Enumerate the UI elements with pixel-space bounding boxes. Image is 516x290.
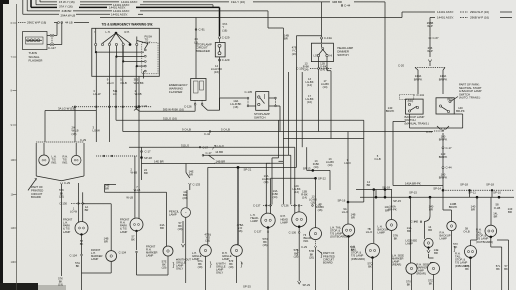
svg-text:BR: BR xyxy=(160,226,164,230)
svg-text:511LG (16): 511LG (16) xyxy=(163,116,177,120)
svg-text:(14): (14) xyxy=(320,68,325,72)
svg-text:O-LB: O-LB xyxy=(494,206,501,210)
svg-text:}: } xyxy=(210,262,212,268)
svg-text:}: } xyxy=(321,253,323,259)
svg-text:IND.: IND. xyxy=(304,239,310,243)
svg-text:385 W-R BK (16): 385 W-R BK (16) xyxy=(163,107,184,111)
svg-text:LAMP: LAMP xyxy=(406,242,414,246)
svg-text:BR: BR xyxy=(434,251,438,255)
svg-text:C-44: C-44 xyxy=(204,132,211,136)
svg-text:BR: BR xyxy=(85,208,89,212)
svg-text:15 W-Y (16): 15 W-Y (16) xyxy=(59,0,75,4)
svg-text:BK: BK xyxy=(504,267,508,271)
svg-text:}: } xyxy=(454,247,456,253)
svg-text:(REAR): (REAR) xyxy=(417,272,426,276)
svg-text:BR: BR xyxy=(508,210,512,214)
svg-text:LO: LO xyxy=(314,54,317,58)
svg-text:BR: BR xyxy=(428,228,432,232)
svg-text:BREAKER: BREAKER xyxy=(196,49,210,53)
svg-text:C-130: C-130 xyxy=(59,202,67,206)
svg-text:(14): (14) xyxy=(323,85,328,89)
svg-text:C-29: C-29 xyxy=(315,203,321,207)
svg-text:(16): (16) xyxy=(318,208,323,212)
svg-text:LAMP: LAMP xyxy=(378,231,386,235)
svg-text:W-LB: W-LB xyxy=(135,92,142,96)
svg-text:C-91: C-91 xyxy=(142,104,149,108)
svg-text:LG-W: LG-W xyxy=(70,209,77,213)
svg-text:W-LB: W-LB xyxy=(134,188,141,192)
svg-text:BR-PK: BR-PK xyxy=(414,77,423,81)
svg-text:BOARD: BOARD xyxy=(323,261,333,265)
svg-text:C-137: C-137 xyxy=(254,230,262,234)
svg-text:(14): (14) xyxy=(264,180,269,184)
svg-text:LG-W: LG-W xyxy=(93,92,101,96)
svg-text:(19): (19) xyxy=(72,132,77,136)
svg-text:ONLY: ONLY xyxy=(176,267,183,271)
svg-text:5 O-LB: 5 O-LB xyxy=(221,128,230,132)
svg-text:BR-PK: BR-PK xyxy=(439,77,448,81)
svg-text:C-129: C-129 xyxy=(222,36,230,40)
svg-text:BK: BK xyxy=(465,267,469,271)
svg-text:SWITCH: SWITCH xyxy=(254,115,265,119)
svg-text:BR: BR xyxy=(284,37,288,41)
svg-text:C-17: C-17 xyxy=(206,151,213,155)
svg-text:BR-PK: BR-PK xyxy=(439,138,448,142)
svg-text:BK: BK xyxy=(394,237,398,241)
svg-text:C-13A: C-13A xyxy=(324,36,332,40)
svg-text:(16): (16) xyxy=(222,28,227,32)
svg-text:10: 10 xyxy=(11,158,15,162)
svg-text:LG: LG xyxy=(113,92,117,96)
svg-text:C-141: C-141 xyxy=(417,93,425,97)
svg-text:}: } xyxy=(297,250,299,256)
svg-text:BK: BK xyxy=(496,267,500,271)
svg-text:BR: BR xyxy=(494,215,498,219)
svg-text:BR-PK: BR-PK xyxy=(388,208,397,212)
svg-text:SP-14: SP-14 xyxy=(433,186,441,190)
svg-text:(19): (19) xyxy=(198,265,203,269)
svg-text:LAMP: LAMP xyxy=(251,219,259,223)
svg-text:(16): (16) xyxy=(214,70,219,74)
svg-text:SP-25: SP-25 xyxy=(243,284,251,288)
svg-text:LAMP: LAMP xyxy=(281,220,289,224)
svg-text:(14): (14) xyxy=(294,190,299,194)
svg-text:14401 ASSY.: 14401 ASSY. xyxy=(437,16,454,20)
svg-text:LG-O: LG-O xyxy=(366,230,373,234)
svg-text:LG-O: LG-O xyxy=(342,210,349,214)
svg-text:SP-18: SP-18 xyxy=(486,182,494,186)
svg-text:(14): (14) xyxy=(314,165,319,169)
svg-text:BR-PK: BR-PK xyxy=(439,176,448,180)
svg-text:LG-W: LG-W xyxy=(93,129,101,133)
svg-text:SP-22: SP-22 xyxy=(318,176,326,180)
svg-text:C-127: C-127 xyxy=(48,46,56,50)
svg-text:(19): (19) xyxy=(162,266,167,270)
svg-text:C-136: C-136 xyxy=(289,231,297,235)
svg-text:13: 13 xyxy=(11,260,15,264)
svg-text:BR: BR xyxy=(144,171,148,175)
svg-text:ONLY: ONLY xyxy=(216,271,223,275)
svg-text:C-27: C-27 xyxy=(203,145,209,149)
svg-text:L.H.: L.H. xyxy=(106,30,111,34)
svg-text:(19): (19) xyxy=(58,283,63,287)
svg-text:SP-29: SP-29 xyxy=(303,283,311,287)
svg-text:W-LB: W-LB xyxy=(126,196,133,200)
svg-text:37A Y (16): 37A Y (16) xyxy=(59,5,73,9)
svg-text:BR-PK: BR-PK xyxy=(386,109,395,113)
svg-text:(16): (16) xyxy=(238,229,243,233)
svg-text:LAMP: LAMP xyxy=(146,254,154,258)
svg-text:BR: BR xyxy=(385,208,389,212)
svg-text:BK: BK xyxy=(80,242,84,246)
svg-text:BR-PK: BR-PK xyxy=(456,109,465,113)
svg-text:LAMP: LAMP xyxy=(91,257,99,261)
svg-text:3A LG-W (19): 3A LG-W (19) xyxy=(58,107,75,111)
svg-text:IND.: IND. xyxy=(52,161,58,165)
svg-text:LG-O: LG-O xyxy=(107,81,115,85)
svg-text:LAMP: LAMP xyxy=(169,213,177,217)
svg-text:C-17: C-17 xyxy=(145,150,152,154)
svg-text:C-67: C-67 xyxy=(433,36,440,40)
svg-text:14 BR: 14 BR xyxy=(215,150,223,154)
svg-text:294A W-LB: 294A W-LB xyxy=(61,14,76,18)
svg-text:C-29: C-29 xyxy=(64,181,71,185)
svg-text:LAMP: LAMP xyxy=(120,230,128,234)
svg-text:SP-15: SP-15 xyxy=(393,199,401,203)
svg-text:LG-O: LG-O xyxy=(344,161,351,165)
svg-text:BR: BR xyxy=(471,208,475,212)
svg-text:C-133: C-133 xyxy=(193,182,201,186)
svg-text:(NO): (NO) xyxy=(408,99,414,103)
svg-text:(14): (14) xyxy=(302,196,307,200)
svg-text:140A BR-PK: 140A BR-PK xyxy=(405,181,421,185)
svg-text:9 O-LB: 9 O-LB xyxy=(182,128,191,132)
svg-text:C-29: C-29 xyxy=(80,138,87,142)
svg-text:C-70: C-70 xyxy=(426,130,433,134)
svg-text:BOARD: BOARD xyxy=(31,195,41,199)
svg-text:(19): (19) xyxy=(178,227,183,231)
svg-text:(16): (16) xyxy=(292,52,297,56)
svg-text:LAMP: LAMP xyxy=(63,230,71,234)
svg-text:~: ~ xyxy=(185,211,187,215)
svg-text:SP-11: SP-11 xyxy=(468,190,476,194)
svg-text:BK: BK xyxy=(429,282,433,286)
svg-text:IND.: IND. xyxy=(63,161,69,165)
svg-text:(16): (16) xyxy=(311,201,316,205)
svg-text:C-129: C-129 xyxy=(222,58,230,62)
svg-text:SP-16: SP-16 xyxy=(338,198,346,202)
svg-text:C-134: C-134 xyxy=(119,250,127,254)
svg-text:14401 ASSY.: 14401 ASSY. xyxy=(111,13,128,17)
svg-text:(INBOARD): (INBOARD) xyxy=(351,257,365,261)
svg-text:SP-28: SP-28 xyxy=(144,156,152,160)
svg-text:44 LB: 44 LB xyxy=(65,21,73,25)
svg-text:(14): (14) xyxy=(328,163,333,167)
svg-text:SP-13: SP-13 xyxy=(303,166,311,170)
svg-text:(16): (16) xyxy=(233,105,238,109)
svg-text:BK: BK xyxy=(76,264,80,268)
svg-text:C-29: C-29 xyxy=(301,245,307,249)
svg-text:SP-15: SP-15 xyxy=(409,190,417,194)
svg-text:11: 11 xyxy=(11,193,14,197)
svg-text:C-135: C-135 xyxy=(245,90,253,94)
svg-text:(16): (16) xyxy=(205,239,210,243)
svg-text:FLASHER: FLASHER xyxy=(169,90,182,94)
svg-text:(14): (14) xyxy=(307,83,312,87)
svg-text:14B BR: 14B BR xyxy=(216,159,226,163)
svg-text:C-134: C-134 xyxy=(70,253,78,257)
svg-text:SP-18: SP-18 xyxy=(382,186,390,190)
svg-text:BR: BR xyxy=(367,183,371,187)
svg-text:SP-18: SP-18 xyxy=(460,182,468,186)
svg-text:HI: HI xyxy=(330,54,333,58)
svg-text:19A-Y (16): 19A-Y (16) xyxy=(231,0,245,4)
svg-text:(20): (20) xyxy=(59,194,64,198)
svg-text:C-44: C-44 xyxy=(344,4,351,8)
svg-text:(16): (16) xyxy=(307,100,312,104)
svg-text:BK: BK xyxy=(407,283,411,287)
svg-text:C-20: C-20 xyxy=(398,64,405,68)
svg-text:BR: BR xyxy=(407,229,411,233)
svg-text:C-17: C-17 xyxy=(446,146,453,150)
svg-text:C-137: C-137 xyxy=(253,203,261,207)
svg-text:14401 ASSY.: 14401 ASSY. xyxy=(437,10,454,14)
svg-text:O-LB: O-LB xyxy=(374,157,380,161)
svg-text:BK: BK xyxy=(131,238,135,242)
svg-text:C-44: C-44 xyxy=(446,166,453,170)
svg-text:O-LB: O-LB xyxy=(120,81,127,85)
svg-text:(16): (16) xyxy=(263,243,268,247)
svg-text:(MANUAL TRANS.): (MANUAL TRANS.) xyxy=(405,122,429,126)
svg-text:14E BR: 14E BR xyxy=(154,160,164,164)
svg-text:BR: BR xyxy=(351,216,355,220)
svg-text:LG-O: LG-O xyxy=(218,144,224,148)
svg-text:W-P: W-P xyxy=(427,49,433,53)
svg-text:O-LB: O-LB xyxy=(463,230,469,234)
svg-text:BR: BR xyxy=(189,173,193,177)
svg-text:LAMP: LAMP xyxy=(440,237,448,241)
svg-text:BR-PK: BR-PK xyxy=(439,155,448,159)
svg-text:W-LB: W-LB xyxy=(131,171,138,175)
svg-text:SWITCH: SWITCH xyxy=(337,53,348,57)
svg-text:T/S & EMERGENCY WARNING SW.: T/S & EMERGENCY WARNING SW. xyxy=(102,23,154,27)
svg-text:(AUTO. TRANS.): (AUTO. TRANS.) xyxy=(459,96,480,100)
svg-text:(20): (20) xyxy=(183,196,188,200)
svg-text:}: } xyxy=(173,263,175,269)
svg-text:W-P: W-P xyxy=(427,24,433,28)
svg-text:34B BR: 34B BR xyxy=(62,9,72,13)
svg-text:296C W-P (16): 296C W-P (16) xyxy=(27,21,46,25)
svg-text:SP-21: SP-21 xyxy=(244,168,252,172)
svg-text:SP-10: SP-10 xyxy=(493,190,501,194)
svg-text:34B BR: 34B BR xyxy=(332,0,342,4)
svg-text:(14): (14) xyxy=(273,195,278,199)
svg-text:R.H.: R.H. xyxy=(125,30,131,34)
svg-text:(14): (14) xyxy=(304,68,309,72)
svg-text:BR: BR xyxy=(104,240,108,244)
svg-text:(20): (20) xyxy=(309,255,314,259)
svg-text:C-126: C-126 xyxy=(184,104,192,108)
svg-text:12: 12 xyxy=(11,226,15,230)
svg-text:FLASHER: FLASHER xyxy=(29,59,44,63)
svg-text:296A W-P (16): 296A W-P (16) xyxy=(470,10,489,14)
svg-text:BK: BK xyxy=(368,265,372,269)
svg-text:296B W-P (16): 296B W-P (16) xyxy=(470,16,489,20)
svg-text:}: } xyxy=(241,262,243,268)
svg-text:C-91: C-91 xyxy=(199,28,206,32)
svg-text:(REAR): (REAR) xyxy=(392,263,401,267)
svg-text:BR: BR xyxy=(105,187,109,191)
svg-text:511LG: 511LG xyxy=(181,143,189,147)
svg-text:BR-PK: BR-PK xyxy=(449,205,458,209)
svg-text:C-136: C-136 xyxy=(281,203,289,207)
svg-text:(19): (19) xyxy=(229,265,234,269)
